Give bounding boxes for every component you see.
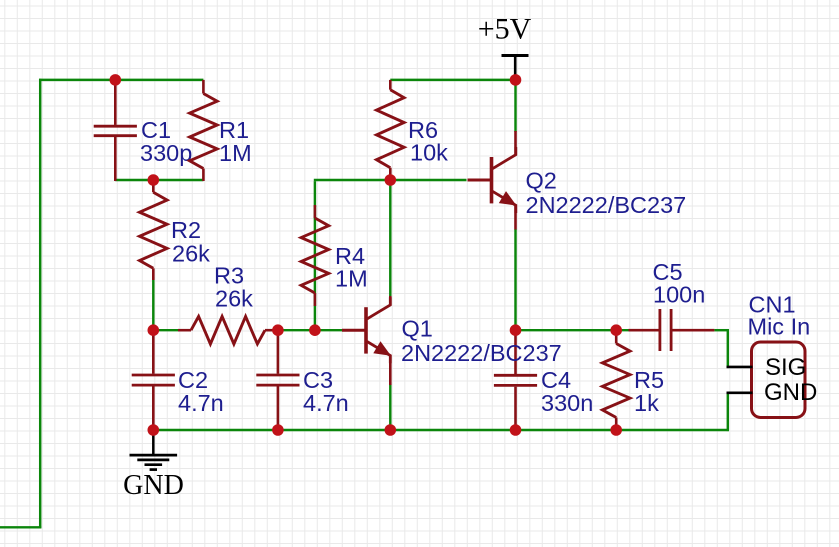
power flag +5V xyxy=(478,13,532,80)
wire: R6 top corner vertical stub xyxy=(389,79,391,90)
junction node C3/R3 xyxy=(272,324,284,336)
resistor R3 xyxy=(178,316,278,344)
junction node R5 bottom xyxy=(610,424,622,436)
junction node R4 bottom xyxy=(309,324,321,336)
resistor R6 xyxy=(377,80,405,178)
svg-text:Q2: Q2 xyxy=(526,168,557,194)
junction node C1/top rail xyxy=(110,74,122,86)
Q1 collector lead maroon xyxy=(389,296,392,305)
svg-text:330p: 330p xyxy=(140,140,192,166)
resistor R4 xyxy=(301,205,329,306)
wire: base node row, R3 left lead wire xyxy=(153,329,179,331)
wire: top-left rail (input to C1/R1) xyxy=(39,79,203,81)
wire: input left vertical xyxy=(39,79,41,529)
svg-text:R3: R3 xyxy=(214,262,244,288)
pin SIG xyxy=(727,366,753,369)
svg-text:330n: 330n xyxy=(541,390,593,416)
junction node GND/C2 xyxy=(148,424,160,436)
svg-text:10k: 10k xyxy=(410,139,448,165)
Q2 emitter lead maroon xyxy=(514,205,517,230)
capacitor C4 xyxy=(494,330,537,430)
capacitor C1 xyxy=(94,80,137,181)
svg-text:GND: GND xyxy=(764,379,817,406)
svg-text:Mic In: Mic In xyxy=(748,314,811,340)
wire: Q2 collector vertical to +5V node xyxy=(514,80,516,132)
wire: input stub bottom-left horizontal xyxy=(0,526,41,528)
wire: Q1 emitter vertical down to bottom rail xyxy=(389,384,391,430)
wire: R3 right node to R4 node to Q1 base xyxy=(278,329,344,331)
wire: +5V rail from R6 top to power node xyxy=(390,79,515,81)
resistor R5 xyxy=(602,330,630,430)
svg-text:26k: 26k xyxy=(172,240,210,266)
svg-text:SIG: SIG xyxy=(765,354,806,381)
ground symbol GND xyxy=(123,430,184,501)
svg-text:GND: GND xyxy=(123,470,184,501)
svg-text:1M: 1M xyxy=(335,266,368,292)
junction node Q2 base/R6 xyxy=(385,174,397,186)
connector CN1 box xyxy=(752,342,806,418)
wire: bottom ground rail xyxy=(153,429,729,431)
wire: mid rail from R4 to Q2 base xyxy=(314,179,467,181)
svg-text:26k: 26k xyxy=(215,286,253,312)
svg-text:+5V: +5V xyxy=(478,13,532,46)
svg-text:2N2222/BC237: 2N2222/BC237 xyxy=(526,192,687,218)
transistor Q1 xyxy=(342,297,391,363)
junction node base row left xyxy=(148,324,160,336)
svg-text:1k: 1k xyxy=(634,390,659,416)
transistor Q2 xyxy=(468,147,517,213)
resistor R2 xyxy=(140,180,168,280)
svg-text:R1: R1 xyxy=(219,117,249,143)
wire: R4 top vertical to mid rail xyxy=(314,206,316,330)
junction node +5V rail xyxy=(510,74,522,86)
junction node R2 top xyxy=(148,174,160,186)
resistor R1 xyxy=(190,80,218,181)
capacitor C3 xyxy=(256,330,299,430)
junction node C4 top xyxy=(510,324,522,336)
wire: C4 node to R5 node to C5 xyxy=(516,329,631,331)
capacitor C5 xyxy=(629,309,715,351)
junction node R5 top xyxy=(610,324,622,336)
wire: Q2 emitter vertical down to C4 node xyxy=(514,229,516,330)
wire: node between C1/R1 bottom and R2 top xyxy=(115,179,203,181)
svg-text:100n: 100n xyxy=(653,282,705,308)
svg-text:1M: 1M xyxy=(219,140,252,166)
svg-text:R2: R2 xyxy=(171,217,201,243)
svg-text:2N2222/BC237: 2N2222/BC237 xyxy=(401,340,562,366)
junction node Q1 emitter xyxy=(385,424,397,436)
capacitor C2 xyxy=(132,330,175,430)
wire: SIG pin vertical drop xyxy=(727,329,729,367)
svg-text:4.7n: 4.7n xyxy=(178,390,224,416)
wire: R1 right-side vertical connections xyxy=(202,79,204,93)
pin GND xyxy=(727,391,753,394)
Q2 collector lead maroon xyxy=(514,131,517,155)
junction node C3 bottom xyxy=(272,424,284,436)
wire: GND pin vertical to bottom rail xyxy=(727,393,729,431)
wire: C5 right lead to connector corner xyxy=(714,329,729,331)
svg-text:Q1: Q1 xyxy=(402,316,433,342)
junction node C4 bottom xyxy=(510,424,522,436)
svg-text:C1: C1 xyxy=(141,117,171,143)
wire: R2 bottom to base node xyxy=(152,277,154,330)
Q1 emitter lead maroon xyxy=(389,355,392,385)
wire: Q1 collector vertical up to mid rail xyxy=(389,180,391,297)
svg-text:4.7n: 4.7n xyxy=(303,390,349,416)
